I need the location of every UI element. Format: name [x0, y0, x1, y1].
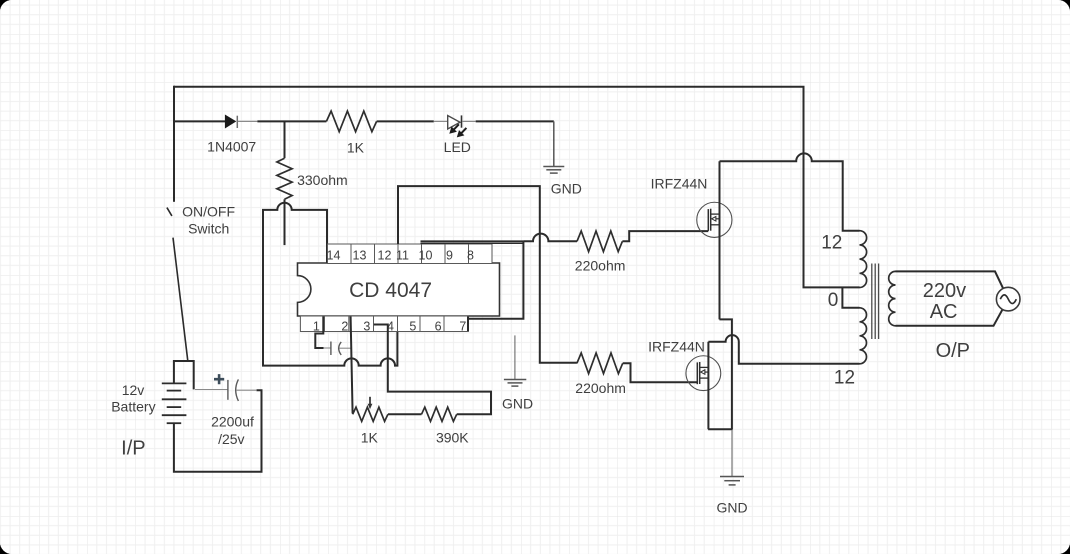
wire: IC pin 1 down-left to capacitor C2 [315, 317, 323, 349]
label: 220v AC [923, 280, 966, 323]
svg-text:10: 10 [419, 249, 433, 263]
label: 220ohm [575, 380, 626, 396]
svg-text:1K: 1K [361, 429, 379, 445]
wire: top rail down to ON/OFF switch [173, 86, 175, 202]
label: IRFZ44N [651, 175, 708, 191]
label: ON/OFF Switch [182, 203, 235, 236]
svg-text:I/P: I/P [121, 438, 145, 460]
label: 390K [436, 430, 469, 446]
pin 8 of U1 [467, 244, 492, 264]
wire: 1K to LED anode [377, 120, 434, 122]
svg-text:2200uf: 2200uf [211, 413, 254, 429]
svg-text:0: 0 [828, 290, 839, 311]
label: 12 (bottom tap) [834, 368, 855, 389]
LED D2 [434, 115, 476, 137]
svg-text:Switch: Switch [188, 221, 229, 237]
wire: battery negative bottom loop to capacitor negative [174, 390, 262, 471]
svg-text:GND: GND [716, 499, 747, 515]
ground GND1 [543, 167, 564, 174]
pin 4 of U1 [374, 316, 398, 333]
pin 2 of U1 [324, 316, 349, 333]
wire: R6 to Q2 gate [623, 363, 698, 382]
capacitor C1 2200uf/25v electrolytic [195, 374, 257, 401]
pin 11 of U1 [396, 244, 421, 264]
svg-text:LED: LED [444, 139, 471, 155]
pin 1 of U1 [300, 316, 324, 333]
label: GND [502, 395, 533, 411]
pin 6 of U1 [420, 316, 444, 333]
svg-text:5: 5 [409, 319, 416, 333]
label: 2200uf /25v [211, 413, 254, 447]
battery BT1 12v [162, 383, 187, 423]
svg-text:6: 6 [435, 319, 442, 333]
label: IRFZ44N [648, 338, 705, 354]
pin 7 of U1 [444, 316, 468, 333]
wire: Q1 drain/source vertical bus [719, 161, 721, 319]
svg-text:12: 12 [834, 368, 855, 389]
wire: secondary bottom lead to output [896, 299, 1009, 326]
svg-text:ON/OFF: ON/OFF [182, 203, 235, 219]
wire: rail junction to diode anode [174, 120, 226, 122]
wire: Q2 drain to transformer bottom 12 tap (hops over Q1 source line) [708, 335, 859, 364]
svg-text:13: 13 [353, 249, 367, 263]
pin 14 of U1 [327, 244, 351, 264]
pin 12 of U1 [375, 244, 399, 264]
transistor Q2 IRFZ44N (lower) [686, 356, 721, 391]
transformer T1 primary upper winding [860, 231, 867, 288]
wire: Q1 drain to transformer top 12 tap (hops over center-tap feed) [720, 153, 860, 230]
wire: Q2 drain/source vertical bus down to ground bar [707, 342, 709, 430]
wire: center tap jog [842, 287, 859, 307]
svg-text:390K: 390K [436, 430, 469, 446]
svg-text:8: 8 [467, 249, 474, 263]
label: GND [551, 181, 582, 197]
wire: IC pin 14 loop to IC pin 4 (supply net, hops over 330ohm lead, pin2 and pin3 wires) [263, 203, 397, 366]
svg-text:220ohm: 220ohm [575, 380, 626, 396]
label: 12 (top tap) [821, 233, 842, 254]
ground GND2 below IC [504, 335, 526, 386]
svg-text:12: 12 [821, 233, 842, 254]
svg-text:14: 14 [327, 249, 341, 263]
label: LED [444, 139, 471, 155]
transformer T1 primary lower winding [860, 308, 867, 364]
wire: R3 wiper side to resistor R4 [388, 413, 422, 415]
wire: Q1 source down to common source node [719, 319, 732, 429]
label: O/P output [936, 340, 970, 362]
wire: diode cathode to resistor 1K (junction to 330ohm at x=284.5) [257, 120, 326, 122]
AC source output symbol [996, 287, 1020, 311]
label: 1N4007 [207, 139, 256, 155]
wire: IC pin 10 to upper 220ohm (doubled segment) and branch down to pin 7 [421, 234, 578, 331]
svg-text:CD 4047: CD 4047 [349, 279, 432, 302]
resistor R6 220ohm (lower gate) [577, 353, 623, 374]
transformer T1 core [872, 264, 879, 340]
svg-text:IRFZ44N: IRFZ44N [648, 338, 705, 354]
wire: IC pin 3 to 390K right end [374, 325, 491, 415]
label: 330ohm [297, 172, 348, 188]
svg-text:1: 1 [313, 319, 320, 333]
resistor R2 330ohm [277, 121, 292, 245]
svg-text:1N4007: 1N4007 [207, 139, 256, 155]
svg-text:Battery: Battery [111, 398, 155, 414]
ground GND3 (MOSFET sources) [720, 430, 744, 485]
label: 12v Battery [111, 382, 155, 414]
svg-text:220v: 220v [923, 280, 966, 302]
label: 1K [347, 140, 365, 156]
svg-text:1K: 1K [347, 140, 365, 156]
svg-text:GND: GND [502, 395, 533, 411]
svg-text:AC: AC [930, 301, 958, 323]
pin 5 of U1 [398, 316, 421, 333]
resistor R5 220ohm (upper gate) [577, 231, 622, 252]
svg-text:/25v: /25v [218, 431, 244, 447]
label: CD 4047 [349, 279, 432, 302]
svg-text:2: 2 [341, 319, 348, 333]
wire: battery positive to top supply rail and transformer center tap [174, 87, 860, 288]
capacitor C2 [324, 342, 352, 356]
wire: common source bottom bar [708, 428, 733, 430]
wire: secondary top lead to output [896, 271, 1009, 299]
wire: LED cathode to ground GND1 [476, 121, 554, 166]
wire: IC pin 11 loop over IC to lower 220ohm resistor [398, 186, 577, 363]
svg-text:9: 9 [446, 249, 453, 263]
label: 220ohm [575, 258, 626, 274]
resistor R1 1K [326, 111, 376, 132]
svg-text:7: 7 [459, 319, 466, 333]
potentiometer R3 1K [353, 397, 388, 422]
pin 10 of U1 [419, 244, 445, 264]
pin 9 of U1 [445, 244, 469, 264]
diode D1 1N4007 [225, 115, 258, 129]
switch SW1 ON/OFF [167, 208, 188, 361]
svg-text:220ohm: 220ohm [575, 258, 626, 274]
svg-text:11: 11 [396, 249, 409, 263]
svg-text:IRFZ44N: IRFZ44N [651, 175, 708, 191]
svg-text:12: 12 [378, 249, 392, 263]
pin 3 of U1 [349, 316, 374, 333]
IC U1 CD 4047 body [298, 263, 500, 316]
label: I/P input [121, 438, 145, 460]
wire: R5 to Q1 gate [622, 231, 708, 241]
wire: switch to battery + and capacitor + junction [174, 360, 194, 389]
resistor R4 390K [422, 407, 457, 421]
transistor Q1 IRFZ44N (upper) [697, 202, 732, 237]
svg-text:3: 3 [363, 319, 370, 333]
svg-text:330ohm: 330ohm [297, 172, 348, 188]
wire: IC pin 2 down to potentiometer R3 [351, 317, 353, 414]
label: 1K [361, 429, 379, 445]
label: GND [716, 499, 747, 515]
svg-text:O/P: O/P [936, 340, 970, 362]
transformer T1 secondary winding [889, 271, 896, 325]
svg-text:12v: 12v [122, 382, 145, 398]
pin 13 of U1 [351, 244, 375, 264]
svg-text:GND: GND [551, 181, 582, 197]
label: 0 (center tap) [828, 290, 839, 311]
